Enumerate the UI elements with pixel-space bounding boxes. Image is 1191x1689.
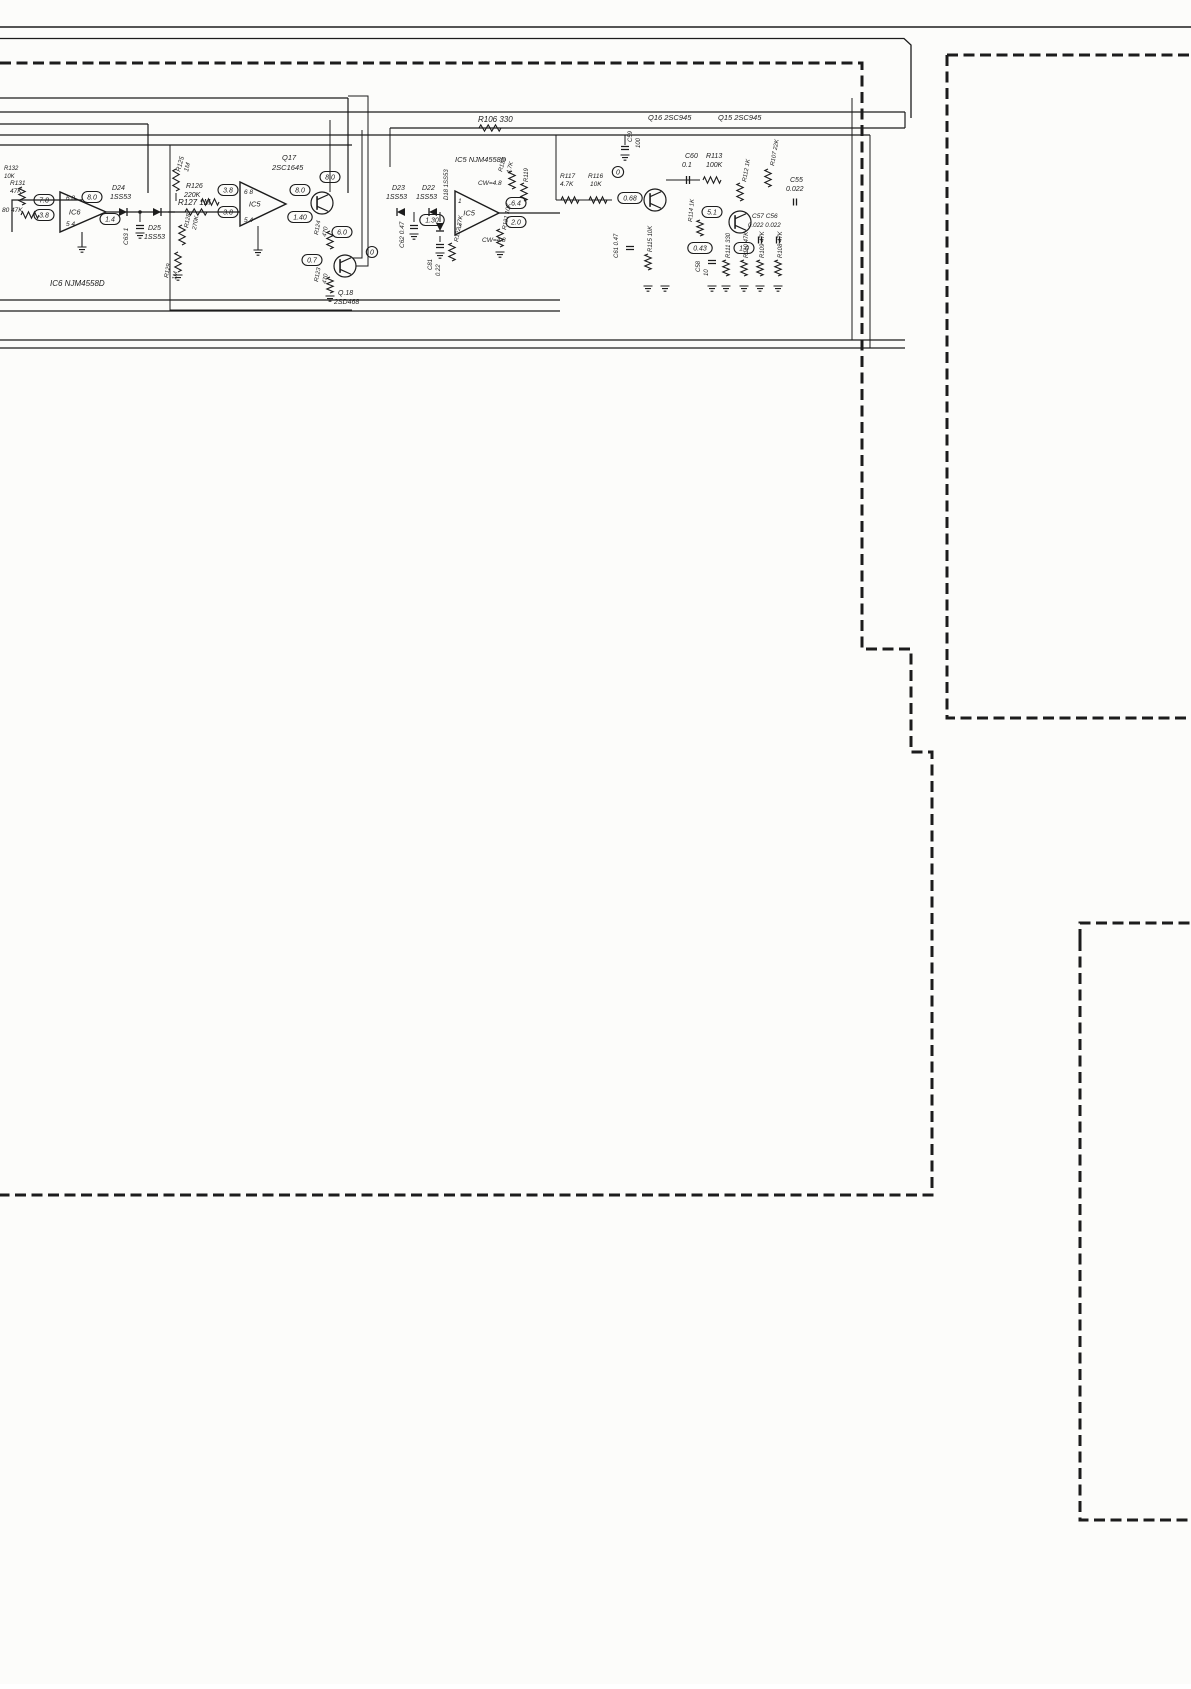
capacitor C81 0.22	[439, 236, 441, 242]
transistor Q16	[644, 189, 666, 211]
bubble 3.8	[34, 210, 54, 221]
wire Q18 out	[348, 96, 368, 266]
svg-text:8.0: 8.0	[87, 195, 97, 202]
bubble 5.1	[702, 207, 722, 218]
svg-text:10: 10	[704, 269, 710, 276]
resistor R128 270K	[179, 225, 185, 245]
svg-text:C59: C59	[628, 130, 634, 142]
svg-text:CW=4.8: CW=4.8	[478, 180, 502, 187]
bubble 0.68	[618, 193, 642, 204]
wire	[353, 130, 362, 258]
vertical right bundle	[851, 98, 853, 340]
svg-text:4.7K: 4.7K	[560, 181, 574, 188]
wire bus	[0, 134, 870, 136]
node	[138, 210, 142, 214]
resistor R123 470	[327, 277, 333, 293]
svg-text:C63 1: C63 1	[123, 227, 130, 245]
svg-text:8.0: 8.0	[325, 175, 335, 182]
svg-text:Q.18: Q.18	[338, 290, 353, 297]
resistor R127 1M	[185, 209, 207, 215]
svg-text:100: 100	[636, 137, 642, 148]
bubble 3.8	[218, 207, 238, 218]
svg-text:Q16 2SC945: Q16 2SC945	[648, 113, 692, 122]
bubble 1.40	[288, 212, 312, 223]
svg-text:D22: D22	[422, 185, 435, 192]
wire bus	[0, 144, 352, 146]
transistor Q15	[729, 211, 751, 233]
resistor R131 47K	[19, 187, 25, 205]
svg-text:D23: D23	[392, 185, 405, 192]
wire bus	[0, 123, 148, 125]
svg-text:1.4: 1.4	[105, 217, 115, 224]
resistor R125 1M	[173, 169, 179, 191]
svg-text:Q17: Q17	[282, 153, 297, 162]
svg-text:R110 47K: R110 47K	[744, 231, 750, 258]
svg-text:1SS53: 1SS53	[416, 194, 437, 201]
resistor R121 10K	[497, 229, 503, 247]
svg-text:3.8: 3.8	[223, 188, 233, 195]
svg-text:1SS53: 1SS53	[110, 194, 131, 201]
bubble 8.0	[290, 185, 310, 196]
svg-text:R109 47K: R109 47K	[760, 230, 766, 258]
wire IC5b out	[499, 212, 560, 214]
svg-text:1SS53: 1SS53	[144, 234, 165, 241]
svg-text:D25: D25	[148, 225, 161, 232]
box around left audio	[170, 145, 352, 310]
svg-text:C62 0.47: C62 0.47	[399, 221, 406, 248]
resistor R108 47K	[775, 260, 781, 276]
diode D25 1SS53	[153, 208, 161, 216]
svg-text:IC5: IC5	[463, 209, 476, 218]
op-amp IC5a	[240, 182, 286, 226]
svg-text:5 4: 5 4	[244, 217, 253, 224]
svg-text:C58: C58	[696, 260, 702, 272]
grounds	[644, 286, 653, 291]
svg-text:0.68: 0.68	[623, 196, 637, 203]
svg-text:1SS53: 1SS53	[386, 194, 407, 201]
wire	[106, 211, 175, 213]
svg-text:47K: 47K	[10, 188, 22, 195]
wire R106 line	[390, 127, 905, 129]
svg-text:R108 47K: R108 47K	[778, 230, 784, 258]
capacitor C62 0.47	[413, 212, 415, 222]
wire bus	[0, 111, 905, 113]
svg-text:D24: D24	[112, 185, 125, 192]
bubble 0	[612, 167, 623, 178]
transistor Q17	[311, 192, 333, 214]
svg-text:1.40: 1.40	[293, 215, 307, 222]
svg-text:0.022: 0.022	[786, 186, 804, 193]
resistor R124 470	[327, 231, 333, 249]
bubble 6.4	[506, 198, 526, 209]
svg-text:R106 330: R106 330	[478, 115, 513, 124]
bubble 8.0 collector	[320, 172, 340, 183]
svg-text:2SC1645: 2SC1645	[271, 163, 304, 172]
wire top bus 2	[0, 39, 911, 119]
svg-text:R113: R113	[706, 153, 722, 160]
wire	[0, 299, 560, 301]
wire bus	[0, 97, 348, 99]
resistor R118 4.7K	[509, 171, 515, 189]
svg-text:1.30: 1.30	[425, 218, 439, 225]
resistor R129 1M	[175, 252, 181, 272]
capacitor C63 1	[139, 212, 141, 222]
bubble 1.30	[420, 215, 444, 226]
wire	[168, 211, 240, 213]
resistor R115 10K	[645, 254, 651, 270]
MAIN board dashed border	[0, 63, 932, 1195]
resistor R119	[521, 183, 527, 201]
diode D24 1SS53	[119, 208, 127, 216]
svg-text:C55: C55	[790, 177, 803, 184]
2ND.IF dashed border	[1080, 923, 1191, 1520]
wire	[0, 347, 905, 349]
svg-text:R119: R119	[524, 167, 530, 182]
bubble 3.8	[218, 185, 238, 196]
wire	[389, 128, 391, 167]
capacitor C58 10	[708, 261, 716, 264]
resistor R106 330	[479, 125, 501, 131]
diode D18v	[436, 223, 444, 231]
svg-text:80 47K: 80 47K	[2, 207, 23, 214]
svg-text:100K: 100K	[706, 162, 723, 169]
svg-text:5.1: 5.1	[707, 210, 717, 217]
resistor R107 22K	[765, 169, 771, 187]
svg-text:C60: C60	[685, 153, 698, 160]
svg-text:0.022 0.022: 0.022 0.022	[748, 222, 781, 229]
ground IC6	[78, 247, 87, 252]
op-amp IC6	[60, 192, 106, 232]
capacitor C59 100	[621, 147, 629, 150]
svg-text:IC5: IC5	[249, 200, 262, 209]
capacitor C61 0.47	[626, 247, 634, 250]
svg-text:3.8: 3.8	[39, 213, 49, 220]
R114 1K	[697, 220, 703, 236]
svg-text:R116: R116	[588, 173, 603, 180]
bubble 7.8	[34, 195, 54, 206]
svg-text:IC5 NJM4558D: IC5 NJM4558D	[455, 155, 507, 164]
svg-text:8.0: 8.0	[295, 188, 305, 195]
ground IC5a	[254, 250, 263, 255]
wire	[0, 310, 560, 312]
svg-text:0.7: 0.7	[307, 258, 318, 265]
svg-text:R117: R117	[560, 173, 575, 180]
wire	[0, 339, 905, 341]
bubble 1.4	[100, 214, 120, 225]
svg-text:6 8: 6 8	[66, 195, 75, 202]
svg-text:R111 330: R111 330	[726, 232, 732, 258]
svg-text:10K: 10K	[4, 174, 16, 180]
svg-text:C81: C81	[428, 259, 434, 270]
svg-text:0: 0	[370, 250, 374, 257]
svg-text:0.43: 0.43	[693, 246, 707, 253]
bubble 1.0	[734, 243, 754, 254]
op-amp IC5b	[455, 191, 499, 235]
svg-text:IC6 NJM4558D: IC6 NJM4558D	[50, 279, 105, 288]
svg-text:6 8: 6 8	[244, 189, 253, 196]
svg-text:R131: R131	[10, 180, 26, 187]
svg-text:D18 1SS53: D18 1SS53	[444, 169, 450, 200]
wire up	[555, 135, 557, 200]
svg-text:R115 10K: R115 10K	[648, 225, 654, 252]
svg-text:C61 0.47: C61 0.47	[614, 233, 620, 258]
resistor R112 1K	[737, 183, 743, 201]
svg-text:IC6: IC6	[69, 208, 82, 217]
RX board dashed border right	[947, 55, 1191, 718]
resistor R109 47K	[757, 260, 763, 276]
bubble 2.0	[506, 217, 526, 228]
box wire	[12, 200, 82, 232]
svg-text:0.1: 0.1	[682, 162, 692, 169]
transistor Q18	[334, 255, 356, 277]
svg-text:C57 C56: C57 C56	[752, 213, 778, 220]
svg-text:10K: 10K	[590, 181, 602, 188]
svg-text:7.8: 7.8	[39, 198, 49, 205]
svg-text:220K: 220K	[183, 192, 201, 199]
svg-text:3: 3	[458, 223, 462, 230]
bubble 8.0	[82, 192, 102, 203]
svg-text:R126: R126	[186, 183, 203, 190]
bubble 0.43	[688, 243, 712, 254]
svg-text:R132: R132	[4, 166, 19, 172]
resistor R111 330	[723, 260, 729, 276]
wire top bus 1	[0, 26, 1191, 28]
svg-text:Q15 2SC945: Q15 2SC945	[718, 113, 762, 122]
wire	[175, 193, 177, 201]
svg-text:6.0: 6.0	[337, 230, 347, 237]
resistor R110 47K	[741, 260, 747, 276]
svg-text:CW=4.8: CW=4.8	[482, 237, 506, 244]
svg-text:1: 1	[458, 198, 462, 205]
svg-text:0.22: 0.22	[436, 264, 442, 276]
svg-text:3.8: 3.8	[223, 210, 233, 217]
bubble 6.0	[332, 227, 352, 238]
svg-text:2.0: 2.0	[510, 220, 521, 227]
svg-text:5 4: 5 4	[66, 221, 75, 228]
bubble 0.7	[302, 255, 322, 266]
resistor R122 27K	[449, 243, 455, 261]
svg-text:6.4: 6.4	[511, 201, 521, 208]
resistor R130 47K	[21, 212, 39, 218]
svg-text:0: 0	[616, 170, 620, 177]
bubble 0	[366, 247, 377, 258]
